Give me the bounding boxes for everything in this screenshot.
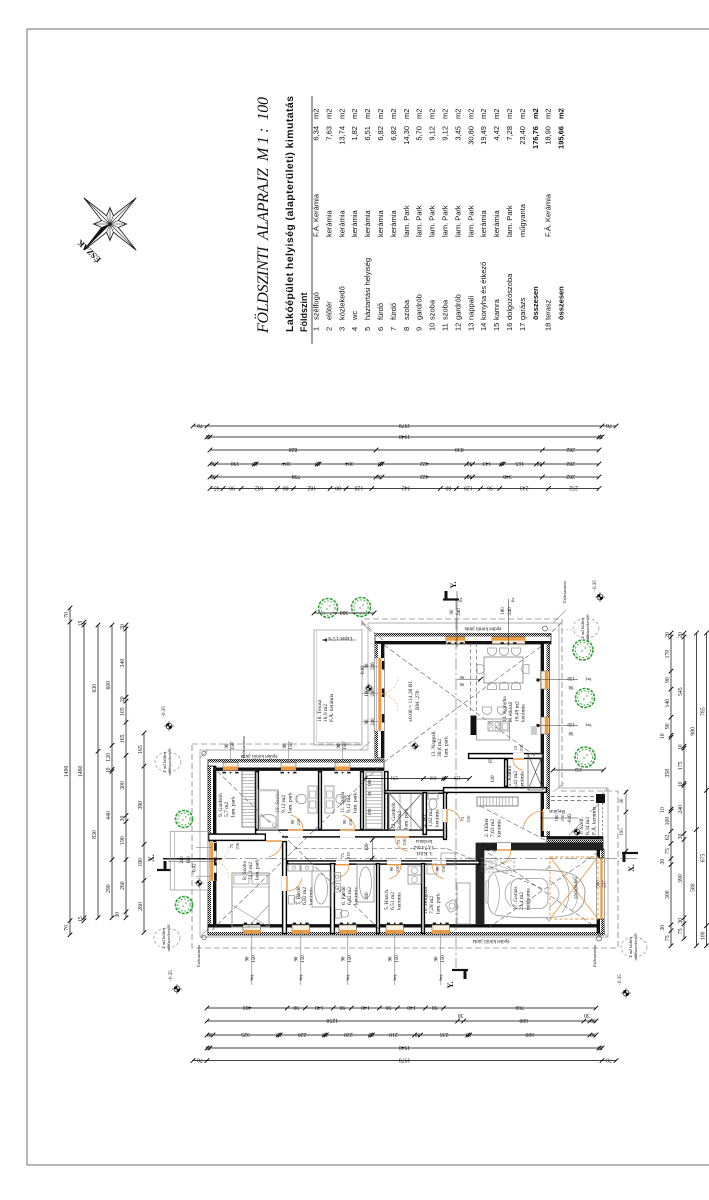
svg-text:80: 80: [335, 484, 341, 490]
svg-text:11: 11: [441, 323, 450, 331]
svg-text:190: 190: [120, 836, 126, 845]
svg-text:m2: m2: [402, 109, 411, 119]
svg-text:m2: m2: [376, 109, 385, 119]
svg-text:30: 30: [458, 1012, 464, 1018]
svg-text:m2: m2: [557, 108, 566, 119]
svg-text:30: 30: [584, 1012, 590, 1018]
svg-text:10: 10: [678, 744, 684, 750]
svg-text:210: 210: [346, 851, 351, 859]
svg-text:65: 65: [214, 484, 220, 490]
svg-text:Y.: Y.: [446, 981, 455, 988]
svg-text:140: 140: [665, 699, 671, 708]
svg-text:90: 90: [435, 956, 440, 961]
svg-text:kerámia: kerámia: [521, 704, 527, 722]
svg-text:X.: X.: [627, 864, 636, 872]
svg-text:20: 20: [665, 632, 671, 638]
svg-text:310: 310: [365, 892, 370, 900]
svg-text:30: 30: [590, 1017, 596, 1023]
svg-text:10: 10: [428, 323, 437, 331]
svg-text:Földszint: Földszint: [299, 293, 309, 333]
svg-text:lam. park: lam. park: [254, 859, 260, 880]
svg-text:kerámia: kerámia: [308, 887, 314, 905]
svg-text:190: 190: [231, 460, 240, 466]
svg-text:8. Szoba: 8. Szoba: [242, 861, 248, 881]
svg-text:lam. Park: lam. Park: [428, 205, 437, 237]
svg-text:210: 210: [235, 842, 240, 850]
svg-text:240: 240: [457, 608, 462, 616]
svg-text:150: 150: [231, 742, 236, 750]
svg-text:3,45: 3,45: [453, 126, 462, 141]
svg-text:fix: fix: [510, 597, 515, 603]
svg-text:−0.35: −0.35: [169, 970, 174, 982]
svg-text:304: 304: [282, 460, 291, 466]
svg-text:6,51: 6,51: [363, 126, 372, 141]
svg-text:9,12: 9,12: [441, 126, 450, 141]
svg-text:1970: 1970: [399, 1056, 411, 1062]
svg-text:30,80: 30,80: [466, 126, 475, 145]
svg-text:4,42: 4,42: [492, 126, 501, 141]
svg-text:13: 13: [466, 323, 475, 331]
svg-text:6,82: 6,82: [376, 126, 385, 141]
svg-text:−0.02: −0.02: [361, 665, 366, 677]
svg-text:7: 7: [389, 327, 398, 331]
svg-text:10: 10: [499, 460, 505, 466]
svg-text:gardrób: gardrób: [453, 294, 462, 320]
svg-text:90: 90: [459, 682, 464, 687]
svg-text:1970: 1970: [399, 422, 411, 428]
svg-text:120: 120: [106, 753, 112, 762]
svg-text:325: 325: [241, 1031, 250, 1037]
svg-text:6,82 m2: 6,82 m2: [302, 887, 308, 905]
svg-text:80: 80: [445, 484, 451, 490]
svg-text:17: 17: [518, 323, 527, 331]
svg-text:75: 75: [396, 839, 401, 844]
svg-text:90: 90: [342, 819, 347, 824]
svg-text:14,30: 14,30: [402, 126, 411, 145]
svg-text:fürdő: fürdő: [376, 303, 385, 320]
svg-text:lam. Park: lam. Park: [402, 205, 411, 237]
svg-text:422: 422: [420, 473, 429, 479]
svg-text:291: 291: [390, 774, 398, 779]
svg-text:90: 90: [459, 675, 464, 680]
svg-text:15: 15: [492, 323, 501, 331]
svg-text:8: 8: [402, 327, 411, 331]
svg-text:1: 1: [312, 327, 321, 331]
svg-text:300: 300: [120, 781, 126, 790]
svg-text:épület körüli járda: épület körüli járda: [472, 938, 509, 943]
svg-text:980: 980: [691, 727, 697, 736]
svg-text:140: 140: [315, 1004, 324, 1010]
svg-text:m2: m2: [492, 109, 501, 119]
svg-text:75: 75: [678, 928, 684, 934]
svg-text:kamra: kamra: [492, 298, 501, 320]
svg-text:358: 358: [665, 769, 671, 778]
svg-text:műgyanta: műgyanta: [518, 203, 527, 237]
svg-text:Esőcsatorna: Esőcsatorna: [241, 736, 246, 758]
svg-text:100: 100: [665, 817, 671, 826]
svg-text:6,82: 6,82: [389, 126, 398, 141]
svg-text:m2: m2: [453, 109, 462, 119]
svg-text:165: 165: [515, 460, 524, 466]
svg-text:6,51 m2: 6,51 m2: [390, 892, 396, 910]
svg-text:7,28: 7,28: [505, 126, 514, 141]
svg-text:195,66: 195,66: [557, 126, 566, 149]
svg-text:75: 75: [229, 843, 234, 848]
svg-text:18,90: 18,90: [544, 126, 553, 145]
svg-text:16. Dolgozó: 16. Dolgozó: [423, 887, 429, 914]
svg-text:1250: 1250: [326, 1017, 338, 1023]
svg-text:90: 90: [435, 866, 440, 871]
svg-text:150: 150: [395, 955, 400, 963]
svg-text:210: 210: [560, 814, 565, 822]
svg-text:90: 90: [342, 956, 347, 961]
svg-text:Esőcsatorna: Esőcsatorna: [592, 945, 597, 967]
svg-text:műfüszerkert16: műfüszerkert16: [585, 614, 590, 642]
svg-text:20: 20: [678, 632, 684, 638]
svg-text:lam. park: lam. park: [352, 792, 358, 813]
svg-text:összesen: összesen: [531, 286, 540, 320]
svg-text:±0.00 = 114,30 Bf.: ±0.00 = 114,30 Bf.: [407, 680, 414, 722]
svg-text:100: 100: [701, 931, 707, 940]
svg-text:20: 20: [120, 696, 126, 702]
svg-text:műgyanta: műgyanta: [525, 888, 531, 910]
svg-text:m2: m2: [505, 109, 514, 119]
svg-text:−0.35: −0.35: [593, 580, 598, 592]
svg-text:kerámia: kerámia: [492, 209, 501, 237]
svg-text:128: 128: [355, 484, 364, 490]
svg-text:165: 165: [138, 745, 144, 754]
svg-text:Bejárat: Bejárat: [549, 808, 565, 814]
svg-text:Esőcsatorna: Esőcsatorna: [562, 581, 567, 603]
svg-text:m2: m2: [312, 109, 321, 119]
svg-text:5,70: 5,70: [415, 126, 424, 141]
svg-text:1490: 1490: [64, 766, 70, 778]
svg-text:14: 14: [479, 323, 488, 331]
svg-text:15: 15: [206, 433, 212, 439]
svg-text:150: 150: [348, 955, 353, 963]
svg-text:785: 785: [701, 707, 707, 716]
svg-text:30: 30: [207, 1031, 213, 1037]
svg-text:műfüszerkert16: műfüszerkert16: [166, 924, 171, 952]
svg-text:lam. Park: lam. Park: [441, 205, 450, 237]
svg-text:182: 182: [255, 484, 264, 490]
svg-text:Lakóépület helyiség (alapterül: Lakóépület helyiség (alapterületi) kimut…: [284, 96, 296, 332]
svg-text:nappali: nappali: [466, 295, 475, 320]
svg-text:100: 100: [367, 779, 372, 787]
svg-text:terasz: terasz: [544, 299, 553, 320]
svg-text:140: 140: [361, 1004, 370, 1010]
svg-text:30: 30: [210, 473, 216, 479]
svg-text:675: 675: [701, 854, 707, 863]
svg-text:1,82: 1,82: [350, 126, 359, 141]
svg-text:282: 282: [566, 460, 575, 466]
svg-text:13,74 m2: 13,74 m2: [413, 844, 434, 850]
svg-text:6,34 m2: 6,34 m2: [585, 817, 591, 835]
svg-text:175: 175: [678, 761, 684, 770]
svg-text:m2: m2: [389, 109, 398, 119]
svg-text:828: 828: [289, 446, 298, 452]
svg-text:70: 70: [197, 1056, 203, 1062]
svg-text:bej.: bej.: [438, 974, 443, 981]
svg-text:182: 182: [307, 484, 316, 490]
svg-text:10: 10: [378, 460, 384, 466]
svg-text:150: 150: [252, 955, 257, 963]
svg-text:75: 75: [665, 848, 671, 854]
svg-text:10: 10: [660, 733, 666, 739]
svg-text:lam. park: lam. park: [230, 796, 236, 817]
svg-text:kerámia: kerámia: [434, 809, 440, 827]
svg-text:150: 150: [567, 675, 575, 680]
svg-text:90: 90: [365, 719, 370, 724]
svg-text:Esőcsatorna: Esőcsatorna: [196, 945, 201, 967]
svg-text:90: 90: [450, 609, 455, 615]
svg-text:9,12 m2: 9,12 m2: [346, 795, 352, 813]
svg-text:10: 10: [367, 791, 372, 796]
svg-text:F.Á. kerámia: F.Á. kerámia: [589, 806, 597, 835]
svg-text:lam. Park: lam. Park: [415, 205, 424, 237]
svg-text:m2: m2: [544, 109, 553, 119]
svg-text:bej.: bej.: [585, 723, 592, 728]
svg-text:kerámia: kerámia: [389, 209, 398, 237]
svg-text:−0.02: −0.02: [193, 863, 198, 875]
svg-text:30: 30: [660, 859, 666, 865]
svg-text:23,40: 23,40: [518, 126, 527, 145]
svg-text:m2: m2: [337, 109, 346, 119]
svg-text:4. Wc: 4. Wc: [422, 813, 428, 827]
svg-text:14. Konyha: 14. Konyha: [502, 696, 508, 722]
svg-text:100: 100: [429, 774, 437, 779]
svg-text:630: 630: [92, 684, 98, 693]
svg-text:6. Fürdő: 6. Fürdő: [341, 886, 347, 905]
svg-text:150: 150: [343, 742, 348, 750]
svg-text:240: 240: [508, 607, 513, 615]
svg-text:440: 440: [106, 811, 112, 820]
svg-text:390: 390: [678, 874, 684, 883]
svg-text:70: 70: [64, 612, 70, 618]
svg-text:−0.02: −0.02: [568, 813, 573, 825]
svg-text:4: 4: [350, 327, 359, 331]
svg-text:30: 30: [415, 1031, 421, 1037]
svg-text:90: 90: [389, 956, 394, 961]
svg-text:1940: 1940: [399, 1044, 411, 1050]
svg-text:300: 300: [340, 609, 349, 615]
svg-text:F.Á. Kerámia: F.Á. Kerámia: [312, 193, 321, 237]
svg-text:760: 760: [515, 1004, 524, 1010]
svg-text:545: 545: [678, 687, 684, 696]
svg-text:30,8 m2: 30,8 m2: [437, 739, 443, 757]
svg-text:30: 30: [678, 834, 684, 840]
svg-text:F.Á. kerámia: F.Á. kerámia: [327, 693, 335, 722]
svg-text:30: 30: [376, 473, 382, 479]
svg-text:90: 90: [229, 484, 235, 490]
svg-text:110: 110: [491, 775, 496, 783]
svg-text:240: 240: [371, 662, 376, 670]
svg-text:dolgozószoba: dolgozószoba: [505, 273, 514, 320]
svg-text:kerámia: kerámia: [376, 209, 385, 237]
svg-text:9. Gardrób: 9. Gardrób: [218, 793, 224, 817]
svg-text:9,12: 9,12: [428, 126, 437, 141]
svg-text:lam. Park: lam. Park: [466, 205, 475, 237]
svg-text:F.Á. Kerámia: F.Á. Kerámia: [544, 193, 553, 237]
svg-text:lam. park: lam. park: [403, 808, 409, 829]
svg-text:épület körüli járda: épület körüli járda: [464, 626, 501, 631]
svg-text:10: 10: [368, 1031, 374, 1037]
svg-text:m2: m2: [350, 109, 359, 119]
svg-text:30: 30: [536, 460, 542, 466]
svg-text:30: 30: [115, 912, 121, 918]
svg-text:garázs: garázs: [518, 297, 527, 320]
svg-text:30: 30: [678, 918, 684, 924]
svg-text:422: 422: [420, 460, 429, 466]
svg-text:20: 20: [120, 624, 126, 630]
svg-text:90: 90: [568, 730, 573, 735]
svg-text:2: 2: [324, 327, 333, 331]
svg-text:1460: 1460: [78, 765, 84, 777]
svg-text:90: 90: [246, 956, 251, 961]
svg-text:bej.: bej.: [585, 677, 592, 682]
svg-text:176,76: 176,76: [531, 126, 540, 149]
svg-text:252: 252: [569, 484, 578, 490]
svg-text:65: 65: [489, 758, 494, 763]
svg-text:304: 304: [345, 460, 354, 466]
svg-text:7,28 m2: 7,28 m2: [429, 896, 435, 914]
svg-text:kerámia: kerámia: [519, 771, 525, 789]
svg-text:1,82 m2: 1,82 m2: [428, 809, 434, 827]
svg-text:260: 260: [120, 881, 126, 890]
svg-text:1. Szélf.: 1. Szélf.: [578, 816, 585, 835]
svg-text:m2: m2: [428, 109, 437, 119]
svg-text:210: 210: [296, 818, 301, 826]
svg-text:75: 75: [665, 935, 671, 941]
svg-text:szoba: szoba: [441, 299, 450, 320]
svg-text:13,74: 13,74: [337, 126, 346, 145]
svg-text:előtér: előtér: [324, 301, 333, 320]
svg-text:gardrób: gardrób: [415, 294, 424, 320]
svg-text:10: 10: [466, 1031, 472, 1037]
svg-text:m2: m2: [531, 108, 540, 119]
svg-text:10: 10: [441, 774, 446, 779]
svg-text:195: 195: [620, 828, 625, 836]
svg-text:210: 210: [441, 865, 446, 873]
svg-text:7,63: 7,63: [324, 126, 333, 141]
svg-text:90: 90: [225, 743, 230, 748]
svg-text:−0.35: −0.35: [618, 974, 623, 986]
svg-text:30: 30: [467, 473, 473, 479]
svg-text:220: 220: [298, 1031, 307, 1037]
svg-text:15: 15: [78, 621, 84, 627]
svg-text:kerámia: kerámia: [350, 209, 359, 237]
svg-text:szoba: szoba: [402, 299, 411, 320]
svg-text:bej.: bej.: [249, 974, 254, 981]
svg-text:12. Gardrób: 12. Gardrób: [391, 802, 397, 829]
svg-text:70: 70: [606, 1056, 612, 1062]
svg-text:15: 15: [206, 1044, 212, 1050]
svg-text:96: 96: [487, 484, 493, 490]
svg-text:210: 210: [492, 845, 497, 853]
svg-text:30: 30: [620, 798, 625, 804]
svg-text:70: 70: [64, 925, 70, 931]
svg-text:1940: 1940: [399, 433, 411, 439]
svg-text:600: 600: [525, 1031, 534, 1037]
svg-text:Lejtés 1,5 %: Lejtés 1,5 %: [328, 635, 352, 640]
svg-text:18: 18: [544, 323, 553, 331]
svg-text:műfüszerkert16: műfüszerkert16: [167, 748, 172, 776]
svg-text:798: 798: [292, 473, 301, 479]
svg-text:15. Kamra: 15. Kamra: [507, 765, 513, 789]
svg-text:lam. Park: lam. Park: [505, 205, 514, 237]
svg-text:lam. park: lam. park: [287, 792, 293, 813]
svg-text:Y.: Y.: [449, 581, 458, 588]
svg-text:150: 150: [289, 742, 294, 750]
svg-text:2. Előtér: 2. Előtér: [484, 818, 490, 837]
svg-text:260: 260: [138, 902, 144, 911]
svg-text:kerámia: kerámia: [396, 892, 402, 910]
svg-text:90: 90: [568, 684, 573, 689]
svg-text:lam. Park: lam. Park: [453, 205, 462, 237]
svg-text:90: 90: [665, 677, 671, 683]
svg-text:15: 15: [513, 745, 518, 750]
svg-text:12: 12: [453, 323, 462, 331]
svg-text:lam. park: lam. park: [443, 736, 449, 757]
svg-text:kerámia: kerámia: [363, 209, 372, 237]
svg-text:15: 15: [78, 916, 84, 922]
svg-text:30: 30: [660, 925, 666, 931]
svg-text:120: 120: [453, 774, 461, 779]
svg-text:210: 210: [402, 838, 407, 846]
svg-text:240: 240: [371, 718, 376, 726]
svg-text:wc: wc: [350, 311, 359, 321]
svg-text:10: 10: [276, 1031, 282, 1037]
svg-text:bej.: bej.: [345, 974, 350, 981]
svg-text:konyha és étkező: konyha és étkező: [479, 262, 488, 320]
svg-text:6,82 m2: 6,82 m2: [347, 887, 353, 905]
svg-text:90: 90: [432, 1004, 438, 1010]
svg-text:bej.: bej.: [392, 974, 397, 981]
svg-text:10: 10: [322, 1031, 328, 1037]
svg-text:30: 30: [467, 460, 473, 466]
svg-text:16: 16: [505, 323, 514, 331]
svg-text:kerámia: kerámia: [337, 209, 346, 237]
svg-text:70: 70: [606, 422, 612, 428]
svg-text:m2: m2: [324, 109, 333, 119]
svg-text:282: 282: [566, 446, 575, 452]
svg-text:143: 143: [483, 460, 492, 466]
svg-text:FÖLDSZINTI ALAPRAJZ M 1 : 1: FÖLDSZINTI ALAPRAJZ M 1 : 100: [254, 97, 272, 334]
svg-text:400: 400: [243, 1004, 252, 1010]
svg-text:30: 30: [590, 1031, 596, 1037]
svg-text:90: 90: [295, 956, 300, 961]
svg-text:műfüszerkert16: műfüszerkert16: [633, 933, 638, 961]
svg-text:bej.: bej.: [298, 974, 303, 981]
svg-text:600: 600: [519, 1017, 528, 1023]
svg-text:170: 170: [665, 650, 671, 659]
svg-text:6: 6: [376, 327, 385, 331]
svg-text:90: 90: [283, 743, 288, 748]
svg-text:342: 342: [402, 484, 411, 490]
svg-text:10: 10: [678, 781, 684, 787]
svg-text:háztartási helyiség: háztartási helyiség: [363, 258, 372, 320]
svg-text:10: 10: [315, 460, 321, 466]
svg-text:180: 180: [187, 856, 192, 864]
svg-text:237: 237: [603, 880, 608, 888]
svg-text:m2: m2: [363, 109, 372, 119]
svg-text:közlekedő: közlekedő: [337, 286, 346, 320]
svg-text:240: 240: [180, 856, 185, 864]
svg-text:210: 210: [389, 1031, 398, 1037]
svg-text:−0.35: −0.35: [162, 706, 167, 718]
svg-text:30: 30: [210, 460, 216, 466]
svg-text:150: 150: [301, 955, 306, 963]
